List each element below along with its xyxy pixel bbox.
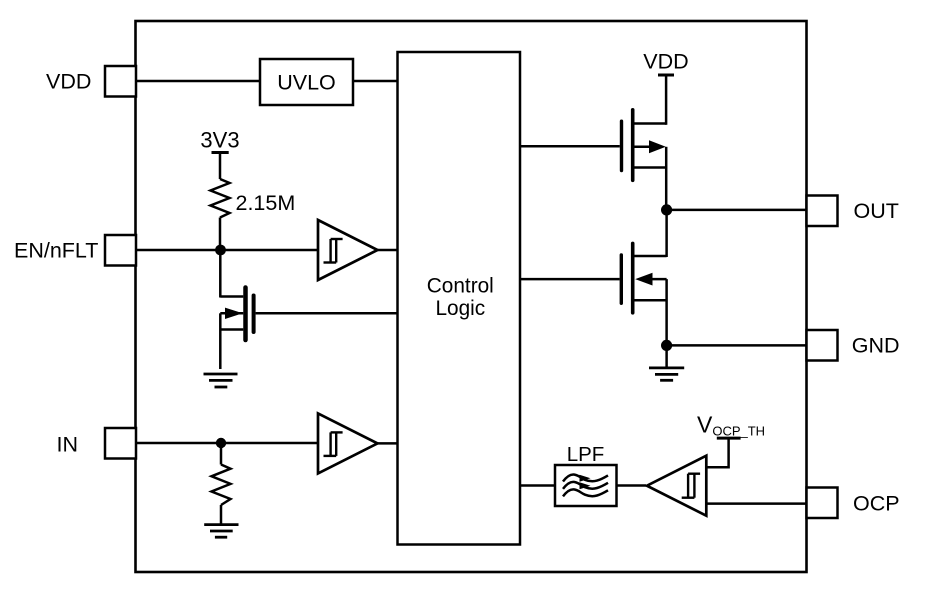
svg-text:VDD: VDD (46, 70, 91, 94)
svg-text:2.15M: 2.15M (236, 191, 296, 215)
svg-text:EN/nFLT: EN/nFLT (14, 239, 98, 263)
svg-text:Logic: Logic (435, 297, 485, 320)
svg-text:OCP: OCP (853, 492, 900, 516)
svg-text:OUT: OUT (854, 199, 899, 223)
svg-text:UVLO: UVLO (277, 71, 336, 95)
svg-text:IN: IN (57, 433, 79, 457)
svg-text:3V3: 3V3 (200, 128, 239, 153)
svg-text:VOCP_TH: VOCP_TH (697, 412, 765, 439)
svg-text:LPF: LPF (567, 443, 605, 466)
svg-text:GND: GND (852, 334, 900, 358)
svg-text:VDD: VDD (643, 50, 688, 74)
svg-text:Control: Control (427, 275, 494, 298)
